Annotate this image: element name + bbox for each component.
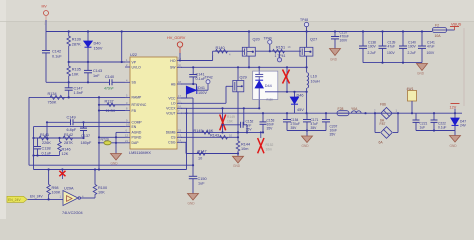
not-fitted mark (red X) inverter supply <box>59 170 65 180</box>
svg-text:R134: R134 <box>48 92 57 96</box>
svg-text:R140: R140 <box>216 46 225 50</box>
IC pin numbers left <box>125 58 129 143</box>
resistor R146 12K <box>58 138 71 156</box>
power port 12V <box>450 104 460 114</box>
svg-text:16K: 16K <box>227 119 234 123</box>
resistor R137 11.3K <box>105 99 116 113</box>
svg-text:VOUT: VOUT <box>166 112 175 116</box>
wire EN_24V input <box>28 194 64 200</box>
svg-text:35V: 35V <box>267 126 274 130</box>
transistor Q29 <box>233 67 247 141</box>
svg-text:10uH: 10uH <box>311 79 320 83</box>
svg-text:AGND: AGND <box>132 131 142 135</box>
wire 12V cap ground rail <box>416 129 455 135</box>
resistor R147 10 <box>197 149 207 160</box>
svg-text:EN_24V: EN_24V <box>8 198 21 202</box>
svg-text:F2: F2 <box>435 24 439 28</box>
svg-text:12K: 12K <box>62 152 69 156</box>
capacitor C138 2.2uF 100V <box>359 32 377 63</box>
capacitor C140 2.2uF 100V <box>399 32 417 63</box>
wire gate drive Q20 <box>213 50 244 52</box>
svg-text:R145: R145 <box>194 129 203 133</box>
svg-text:SS: SS <box>132 81 137 85</box>
svg-text:CS: CS <box>171 136 176 140</box>
svg-text:35V: 35V <box>330 133 337 137</box>
IC pin numbers right <box>178 57 181 143</box>
svg-text:UVLO: UVLO <box>132 65 142 69</box>
svg-text:287K: 287K <box>72 42 81 46</box>
capacitor C142 0.1uF <box>42 32 62 83</box>
resistor R151 <box>273 45 291 53</box>
svg-text:1uF: 1uF <box>198 182 205 186</box>
svg-text:C137: C137 <box>81 134 90 138</box>
ferrite bead Y0A <box>351 107 361 113</box>
diode D44 (boxed snubber module) <box>253 67 278 109</box>
svg-text:F86: F86 <box>380 102 386 106</box>
power port MV <box>42 5 49 26</box>
svg-text:470nF: 470nF <box>104 87 115 91</box>
resistor R144 10m (shunt) <box>236 141 250 156</box>
svg-text:D44: D44 <box>265 84 272 88</box>
svg-text:2.2uF: 2.2uF <box>368 51 376 55</box>
wire RAMP <box>29 96 125 98</box>
net tie NT20 <box>98 138 125 145</box>
inverter U29A 74LVC2G04 <box>60 187 85 215</box>
inductor L10 10uH <box>307 67 320 113</box>
svg-text:HB: HB <box>171 82 176 86</box>
TVS diode D47 24V <box>451 113 467 130</box>
svg-text:PGND: PGND <box>132 136 142 140</box>
capacitor C150 1uF <box>189 165 207 193</box>
svg-text:SW: SW <box>170 66 176 70</box>
fuse F28 <box>337 107 349 116</box>
power port HV_GDRV <box>167 36 186 61</box>
IC pin stubs right <box>177 61 182 143</box>
svg-text:C143: C143 <box>93 69 102 73</box>
svg-text:6A: 6A <box>379 141 384 145</box>
transistor Q27 <box>300 32 317 68</box>
wire MV to bus <box>45 20 47 32</box>
svg-text:GND: GND <box>417 72 425 76</box>
jumper 4W1 <box>407 87 417 113</box>
svg-text:C149: C149 <box>67 115 76 119</box>
svg-text:DAP: DAP <box>132 141 140 145</box>
svg-text:R141: R141 <box>40 133 49 137</box>
transistor Q20 <box>242 32 259 68</box>
svg-text:Q29: Q29 <box>240 75 247 79</box>
svg-text:100V: 100V <box>198 91 207 95</box>
svg-text:10m: 10m <box>241 147 248 151</box>
wire CS <box>181 136 239 138</box>
svg-text:35V: 35V <box>311 126 318 130</box>
svg-text:10m: 10m <box>266 148 273 152</box>
svg-text:0.1uF: 0.1uF <box>438 126 446 130</box>
svg-text:D40: D40 <box>94 42 101 46</box>
diode D41 (bootstrap) <box>181 86 208 98</box>
fuse F87 6A <box>375 113 398 144</box>
capacitor C152 1nF 35V <box>223 119 254 132</box>
wire bottom rail A <box>29 164 194 166</box>
wire inverter output <box>81 197 96 199</box>
capacitor C222 0.1uF <box>431 113 447 130</box>
svg-text:47uF: 47uF <box>427 45 435 49</box>
capacitor C141 0.1uF (bootstrap) <box>189 67 206 84</box>
svg-text:12V: 12V <box>450 105 457 109</box>
svg-text:L10: L10 <box>311 75 317 79</box>
wire VCC vertical <box>181 98 193 165</box>
svg-text:10A: 10A <box>435 34 442 38</box>
svg-text:100V: 100V <box>340 39 349 43</box>
svg-text:1nF: 1nF <box>93 74 100 78</box>
test point TP40 <box>264 36 272 52</box>
svg-text:R137: R137 <box>105 99 114 103</box>
ground C150 <box>188 194 199 206</box>
svg-text:EN_24V: EN_24V <box>30 194 43 198</box>
svg-text:100V: 100V <box>368 45 377 49</box>
svg-text:D41: D41 <box>198 86 205 90</box>
svg-text:10: 10 <box>198 156 202 160</box>
svg-text:0.1uF: 0.1uF <box>52 54 62 58</box>
wire gate drive Q27 <box>255 50 301 52</box>
wire node A to VP <box>68 32 125 64</box>
capacitor C171 47uF 35V <box>303 113 319 130</box>
capacitor C154 270uF 35V <box>283 113 300 130</box>
not-fitted mark (red X) parallel shunt <box>258 131 274 153</box>
ground cap bank <box>417 64 428 76</box>
test point TP42 <box>205 76 213 91</box>
svg-text:Y0A: Y0A <box>351 107 358 111</box>
svg-text:C150: C150 <box>198 177 207 181</box>
capacitor C143 1nF <box>84 62 102 82</box>
svg-text:R150: R150 <box>267 98 274 102</box>
svg-text:F28: F28 <box>338 107 344 111</box>
wire RT/SYNC <box>98 104 125 106</box>
fuse F2 10A <box>433 24 455 39</box>
svg-text:1uF: 1uF <box>420 126 426 130</box>
wire top bus <box>46 31 432 33</box>
resistor R98 100K <box>47 170 61 200</box>
svg-text:U29A: U29A <box>64 187 74 191</box>
capacitor C221 1uF <box>413 113 428 130</box>
svg-text:6.8pF: 6.8pF <box>67 128 77 132</box>
wire AGND PGND <box>98 132 125 153</box>
svg-text:CSG: CSG <box>168 141 176 145</box>
resistor R100 10K <box>93 170 107 199</box>
svg-text:FB: FB <box>132 109 137 113</box>
svg-text:R152: R152 <box>266 143 274 147</box>
svg-text:VCCX: VCCX <box>166 107 176 111</box>
resistor R134 750K <box>48 92 65 104</box>
ground NT20 <box>111 154 122 166</box>
resistor R139 287K <box>67 32 81 63</box>
svg-text:VP: VP <box>132 60 137 64</box>
svg-text:0.1uF: 0.1uF <box>42 151 52 155</box>
zener D40 150V <box>84 32 103 63</box>
capacitor C207 10nF 35V <box>322 113 338 137</box>
wire HB <box>181 83 197 90</box>
svg-text:180pF: 180pF <box>81 141 92 145</box>
svg-text:MV: MV <box>42 5 48 9</box>
svg-text:100V: 100V <box>387 51 396 55</box>
svg-text:RAMP: RAMP <box>132 96 143 100</box>
ground 12V caps <box>450 136 461 148</box>
svg-text:RT/SYNC: RT/SYNC <box>132 103 147 107</box>
wire DEMB <box>181 131 264 133</box>
svg-text:45V: 45V <box>297 108 304 112</box>
wire long vertical FB/EN column <box>98 97 100 169</box>
svg-text:GND: GND <box>233 164 241 168</box>
svg-text:R139: R139 <box>72 38 81 42</box>
wire FB <box>98 109 125 111</box>
svg-text:R144: R144 <box>241 142 250 146</box>
svg-text:74LVC2G04: 74LVC2G04 <box>62 211 83 215</box>
wire COMP <box>47 121 125 123</box>
ground below C137 <box>330 49 341 62</box>
wire SS rail <box>46 81 109 83</box>
svg-text:226K: 226K <box>42 141 51 145</box>
wire SW lower node <box>265 91 308 93</box>
resistor R141 226K <box>39 133 51 145</box>
svg-text:Q27: Q27 <box>310 37 317 41</box>
wire CSG <box>181 142 239 154</box>
wire left feedback vertical <box>28 97 30 165</box>
ground output caps <box>302 136 313 148</box>
svg-text:DEMB: DEMB <box>166 131 177 135</box>
wire SW rail <box>181 66 308 68</box>
svg-text:C141: C141 <box>196 72 205 76</box>
svg-text:C138: C138 <box>42 146 51 150</box>
svg-text:11.3K: 11.3K <box>106 109 116 113</box>
svg-text:R151: R151 <box>276 46 285 50</box>
not-fitted mark (red X) on snubber <box>283 67 290 92</box>
svg-text:10K: 10K <box>98 190 105 194</box>
resistor R142 287K <box>63 133 73 145</box>
wire comp network row <box>32 121 84 139</box>
wire VOUT rail <box>181 112 462 114</box>
svg-text:HO: HO <box>170 59 175 63</box>
capacitor C148 470nF (series on SS) <box>104 75 125 91</box>
svg-text:VBUS: VBUS <box>451 23 462 27</box>
wire output cap ground rail <box>287 129 326 136</box>
capacitor C137a 180pF <box>80 122 92 145</box>
resistor R143 <box>210 134 232 140</box>
svg-text:47uF: 47uF <box>388 45 396 49</box>
wire HO <box>179 51 213 61</box>
svg-text:EN: EN <box>132 125 137 129</box>
svg-text:35V: 35V <box>291 126 298 130</box>
svg-text:100V: 100V <box>427 51 436 55</box>
svg-text:R142: R142 <box>64 133 73 137</box>
capacitor C137 470nF 100V <box>331 31 349 49</box>
svg-text:287K: 287K <box>64 141 73 145</box>
svg-text:VCC: VCC <box>168 96 176 100</box>
svg-text:U22: U22 <box>130 53 137 57</box>
svg-text:GND: GND <box>330 58 338 62</box>
svg-text:R143: R143 <box>210 134 219 138</box>
svg-text:1K: 1K <box>288 45 291 49</box>
svg-text:24V: 24V <box>460 124 467 128</box>
svg-text:GND: GND <box>450 144 458 148</box>
junction dots on top bus <box>68 30 424 32</box>
svg-text:D46: D46 <box>297 94 304 98</box>
svg-text:LO: LO <box>171 102 176 106</box>
net label EN_24V <box>7 196 27 202</box>
svg-text:GND: GND <box>302 144 310 148</box>
wire left EN vertical <box>33 127 35 170</box>
wire faint right edge drop <box>463 28 465 106</box>
test point TP48 <box>300 18 309 32</box>
svg-text:100V: 100V <box>408 45 417 49</box>
resistor R135 10K <box>67 62 81 82</box>
svg-text:16K: 16K <box>207 129 214 133</box>
resistor R145 16K <box>194 129 214 134</box>
svg-text:2.2uF: 2.2uF <box>408 51 416 55</box>
svg-text:TP48: TP48 <box>300 18 308 22</box>
svg-text:HV_GDRV: HV_GDRV <box>167 36 186 40</box>
svg-text:35V: 35V <box>246 127 253 131</box>
wire cap bank bottom rail <box>363 62 422 64</box>
svg-text:150V: 150V <box>94 47 103 51</box>
capacitor C138a 0.1uF <box>34 138 52 156</box>
capacitor C141 47uF 100V <box>418 32 435 63</box>
wire EN <box>34 126 126 128</box>
fuse F86 6A <box>374 102 398 122</box>
IC pin stubs left <box>125 62 130 143</box>
wire VCCX vertical <box>181 108 187 169</box>
svg-text:Q20: Q20 <box>253 37 260 41</box>
svg-text:GND: GND <box>188 202 196 206</box>
svg-text:10K: 10K <box>72 72 79 76</box>
svg-text:R147: R147 <box>198 149 207 153</box>
capacitor C147 1.5nF <box>65 82 84 97</box>
svg-text:F87: F87 <box>380 122 386 126</box>
ground shunt <box>233 156 244 168</box>
capacitor C139 47uF 100V <box>379 32 396 63</box>
not-fitted mark (red X) DEMB branch <box>220 108 235 132</box>
test point TP41 <box>275 51 286 62</box>
junction dots cap bank rail <box>381 62 404 64</box>
svg-text:750K: 750K <box>48 101 57 105</box>
svg-text:C140: C140 <box>105 75 114 79</box>
wire LO to Q29 gate <box>181 86 233 103</box>
svg-text:R146: R146 <box>62 147 71 151</box>
svg-text:C147: C147 <box>74 86 83 90</box>
IC U22 LM5116MHX <box>129 53 177 155</box>
svg-text:1.5nF: 1.5nF <box>74 91 84 95</box>
svg-text:TP42: TP42 <box>205 76 213 80</box>
wire VCCX sense rail <box>187 107 260 125</box>
svg-text:100K: 100K <box>52 190 61 194</box>
resistor R140 <box>212 46 231 57</box>
svg-text:C142: C142 <box>52 50 61 54</box>
capacitor C149 6.8pF (series) <box>67 115 77 132</box>
diode D46 45V <box>290 92 304 113</box>
svg-text:R135: R135 <box>72 68 81 72</box>
capacitor C153 10nF 35V <box>260 113 275 132</box>
power port VBUS <box>450 23 462 31</box>
svg-text:LM5116MHX: LM5116MHX <box>129 151 151 155</box>
wire bottom rail B <box>34 168 187 170</box>
wire comp network bottom rail <box>32 154 59 156</box>
